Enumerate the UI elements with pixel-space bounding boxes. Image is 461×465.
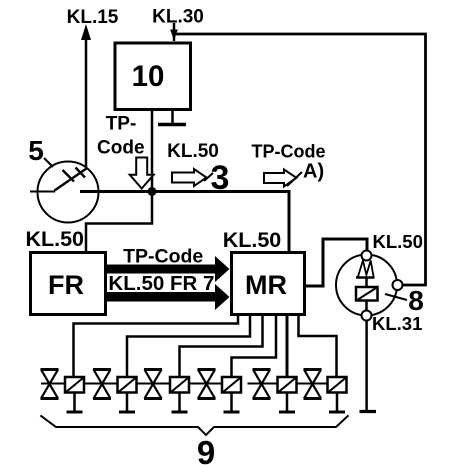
wire KL.30 to starter terminal 30: [174, 34, 426, 285]
terminal node bottom: [362, 311, 372, 321]
svg-text:KL.50: KL.50: [373, 231, 423, 252]
bus arrow KL.50 FR 7: [107, 272, 230, 310]
svg-text:KL.50: KL.50: [223, 228, 282, 252]
brace group 9: [40, 415, 348, 435]
terminal node right: [393, 280, 403, 290]
solenoid valve V3: [170, 377, 189, 412]
injector nozzle N5: [253, 370, 271, 399]
connector arrow TP-Code down: [130, 158, 154, 189]
svg-text:3: 3: [211, 159, 230, 197]
connector arrow TP-Code A: [264, 170, 302, 187]
solenoid valve V4: [222, 377, 241, 412]
svg-text:10: 10: [132, 60, 165, 93]
svg-text:5: 5: [28, 135, 44, 166]
solenoid valve V6: [328, 377, 347, 412]
junction node: [148, 187, 157, 196]
wire box 10 to main node: [151, 109, 154, 191]
svg-text:9: 9: [197, 434, 215, 465]
label TP-Code vertical: [97, 114, 145, 159]
svg-text:FR: FR: [48, 270, 84, 300]
control unit MR: [232, 253, 305, 315]
svg-text:8: 8: [408, 285, 424, 316]
wire MR to valve V4: [232, 316, 277, 376]
solenoid valve V5: [278, 377, 297, 412]
ignition switch 5: [30, 162, 99, 223]
starter motor 8: [336, 255, 397, 316]
wire MR to valve V5: [286, 316, 289, 376]
mechanical link line: [41, 383, 241, 385]
solenoid valve V1: [65, 377, 84, 412]
injector nozzle N6: [304, 370, 322, 399]
label 8: [385, 285, 424, 316]
wire MR to valve V3: [180, 316, 263, 376]
bus arrow TP-Code FR to MR: [107, 246, 230, 283]
label 5: [28, 135, 53, 167]
wire KL.15 arrow: [81, 24, 91, 169]
control unit FR: [31, 253, 106, 315]
ground starter: [360, 320, 377, 412]
wire node to FR KL.50: [86, 192, 152, 252]
solenoid valve V2: [118, 377, 137, 412]
injector nozzle N4: [198, 370, 216, 399]
svg-text:MR: MR: [245, 270, 287, 300]
wire main KL.50 line: [80, 190, 289, 193]
wire KL.30 drop arrow: [170, 23, 178, 41]
svg-text:Code: Code: [97, 138, 145, 159]
wire MR to valve V1: [74, 316, 239, 376]
svg-text:KL.15: KL.15: [67, 7, 119, 28]
svg-text:KL.50 FR 7: KL.50 FR 7: [108, 272, 214, 295]
connector arrow KL.50 right: [172, 169, 213, 186]
svg-text:TP-Code: TP-Code: [252, 142, 326, 162]
injector nozzle N3: [144, 370, 162, 399]
svg-text:A): A): [303, 161, 324, 183]
ground under box 10: [158, 109, 186, 125]
injector nozzle N2: [93, 370, 111, 399]
terminal node top: [362, 251, 372, 261]
svg-text:TP-Code: TP-Code: [123, 246, 203, 268]
injector nozzle N1: [41, 370, 59, 399]
svg-text:KL.31: KL.31: [372, 313, 422, 334]
wire drop to MR: [288, 190, 291, 251]
wire MR to starter KL.50: [306, 239, 367, 286]
relay box 10: [115, 43, 191, 110]
svg-text:KL.50: KL.50: [25, 227, 84, 251]
wire MR to valve V6: [299, 316, 337, 376]
svg-text:KL.30: KL.30: [152, 7, 204, 28]
wire MR to valve V2: [127, 316, 250, 376]
svg-text:TP-: TP-: [106, 114, 137, 135]
